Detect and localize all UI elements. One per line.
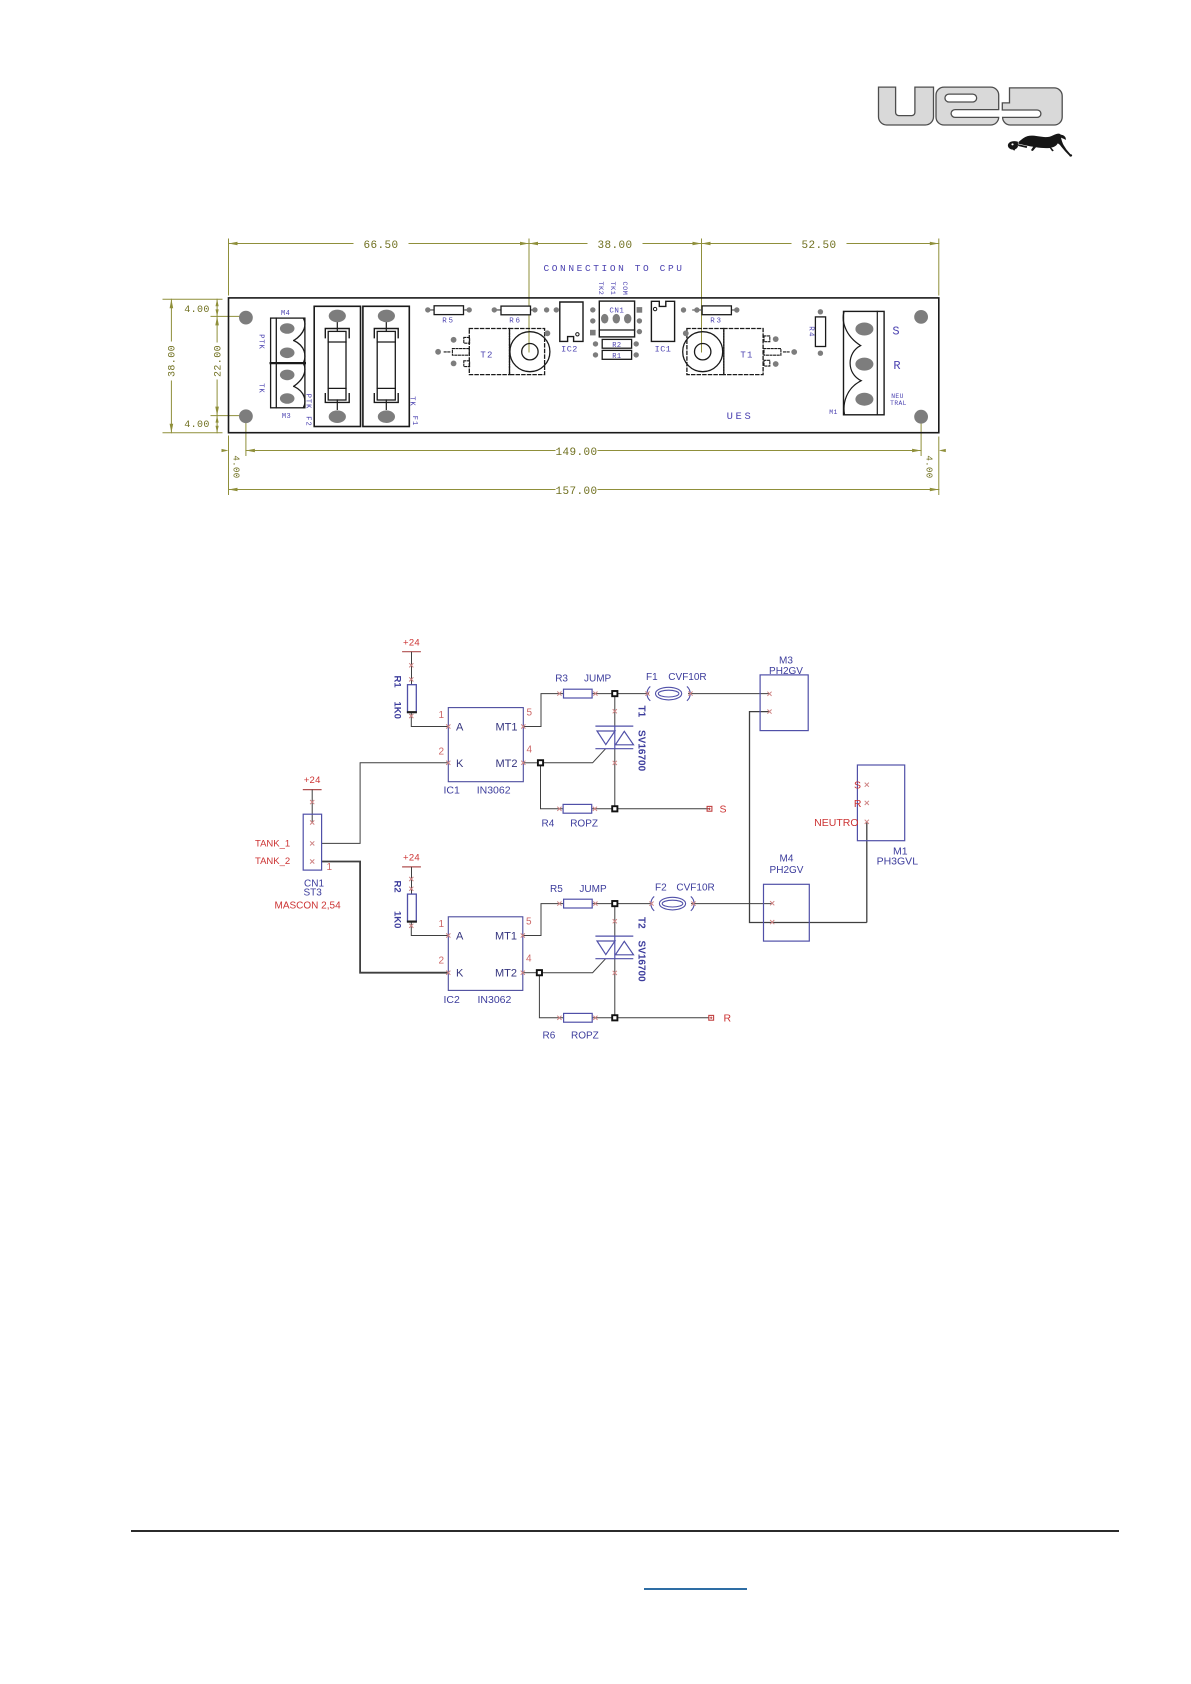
svg-text:UES: UES (727, 411, 754, 423)
svg-text:1K0: 1K0 (391, 911, 402, 928)
svg-text:K: K (456, 758, 464, 770)
svg-text:38.00: 38.00 (168, 345, 179, 377)
svg-text:S: S (892, 325, 899, 339)
svg-text:R: R (724, 1013, 732, 1025)
svg-text:R4: R4 (807, 326, 815, 337)
svg-text:CVF10R: CVF10R (676, 883, 714, 894)
svg-text:4: 4 (526, 954, 532, 965)
svg-text:4.00: 4.00 (924, 455, 934, 478)
svg-text:SV16700: SV16700 (636, 941, 647, 983)
svg-text:T2: T2 (636, 917, 647, 929)
svg-text:PH3GVL: PH3GVL (877, 856, 919, 868)
svg-text:F1: F1 (646, 672, 658, 683)
svg-text:1: 1 (327, 862, 333, 873)
svg-text:66.50: 66.50 (363, 240, 398, 252)
svg-text:5: 5 (526, 917, 532, 928)
svg-text:4.00: 4.00 (184, 305, 210, 316)
svg-text:NEUTRO: NEUTRO (814, 817, 858, 829)
svg-text:R6: R6 (509, 318, 522, 326)
svg-text:MT2: MT2 (496, 758, 518, 770)
svg-text:149.00: 149.00 (555, 447, 597, 459)
svg-text:TK: TK (408, 396, 416, 406)
svg-text:NEU: NEU (891, 393, 904, 400)
svg-text:JUMP: JUMP (584, 674, 612, 685)
svg-text:IC2: IC2 (561, 344, 578, 354)
svg-text:R3: R3 (555, 674, 568, 685)
svg-text:R1: R1 (612, 353, 621, 361)
svg-text:MT1: MT1 (496, 722, 518, 734)
svg-text:COM: COM (620, 281, 628, 295)
svg-text:CONNECTION TO CPU: CONNECTION TO CPU (543, 263, 684, 274)
svg-text:MT1: MT1 (495, 931, 517, 943)
svg-text:TK2: TK2 (596, 281, 604, 295)
svg-text:M1: M1 (829, 409, 838, 416)
svg-text:PH2GV: PH2GV (770, 865, 804, 876)
svg-text:T1: T1 (740, 351, 753, 361)
svg-text:1K0: 1K0 (391, 702, 402, 719)
svg-text:PTK: PTK (257, 334, 265, 350)
svg-text:SV16700: SV16700 (636, 730, 647, 772)
svg-text:JUMP: JUMP (579, 884, 607, 895)
svg-text:TANK_1: TANK_1 (255, 839, 290, 850)
svg-text:ROPZ: ROPZ (571, 1031, 599, 1042)
svg-text:R4: R4 (542, 819, 555, 830)
svg-text:1: 1 (438, 919, 444, 930)
svg-text:T2: T2 (480, 351, 493, 361)
svg-text:R2: R2 (391, 881, 402, 893)
svg-text:IN3062: IN3062 (477, 784, 511, 796)
svg-text:F2: F2 (304, 416, 312, 426)
svg-text:R3: R3 (710, 318, 723, 326)
svg-text:+24: +24 (304, 775, 321, 786)
svg-text:4.00: 4.00 (184, 420, 210, 431)
svg-text:4: 4 (527, 745, 533, 756)
svg-text:MASCON 2,54: MASCON 2,54 (275, 901, 342, 912)
svg-text:2: 2 (438, 956, 444, 967)
svg-text:5: 5 (527, 708, 533, 719)
svg-text:R: R (854, 798, 862, 810)
svg-text:S: S (854, 780, 861, 792)
svg-text:IC1: IC1 (655, 344, 672, 354)
svg-text:TK: TK (257, 383, 265, 393)
svg-text:R1: R1 (391, 676, 402, 689)
svg-text:K: K (456, 968, 464, 980)
svg-text:TRAL: TRAL (890, 400, 907, 407)
svg-text:22.00: 22.00 (214, 345, 225, 377)
svg-text:4.00: 4.00 (231, 455, 241, 478)
svg-text:S: S (720, 804, 727, 816)
svg-text:R6: R6 (543, 1031, 556, 1042)
svg-text:M4: M4 (780, 854, 794, 865)
svg-text:157.00: 157.00 (555, 486, 597, 498)
svg-text:TK1: TK1 (608, 281, 616, 295)
svg-text:F1: F1 (410, 416, 418, 426)
svg-text:CVF10R: CVF10R (668, 672, 706, 683)
svg-text:T1: T1 (636, 706, 647, 718)
svg-text:R5: R5 (550, 884, 563, 895)
svg-text:2: 2 (438, 746, 444, 757)
svg-text:38.00: 38.00 (597, 240, 632, 252)
svg-text:1: 1 (438, 710, 444, 721)
svg-text:IN3062: IN3062 (478, 994, 512, 1006)
svg-text:A: A (456, 722, 464, 734)
svg-text:CN1: CN1 (609, 307, 624, 315)
svg-text:+24: +24 (403, 853, 420, 864)
svg-text:+24: +24 (403, 638, 420, 649)
svg-text:IC1: IC1 (444, 784, 461, 796)
svg-text:ROPZ: ROPZ (570, 819, 598, 830)
svg-text:R5: R5 (442, 318, 455, 326)
svg-text:R2: R2 (612, 342, 621, 350)
svg-text:PTK: PTK (304, 394, 312, 410)
svg-text:M4: M4 (281, 310, 290, 318)
svg-text:R: R (893, 359, 900, 373)
svg-text:52.50: 52.50 (801, 240, 836, 252)
svg-text:IC2: IC2 (444, 994, 461, 1006)
svg-text:ST3: ST3 (304, 888, 323, 899)
svg-text:A: A (456, 931, 464, 943)
svg-text:PH2GV: PH2GV (769, 666, 803, 677)
svg-text:F2: F2 (655, 883, 667, 894)
svg-text:M3: M3 (282, 413, 291, 421)
svg-text:MT2: MT2 (495, 968, 517, 980)
svg-text:TANK_2: TANK_2 (255, 856, 290, 867)
